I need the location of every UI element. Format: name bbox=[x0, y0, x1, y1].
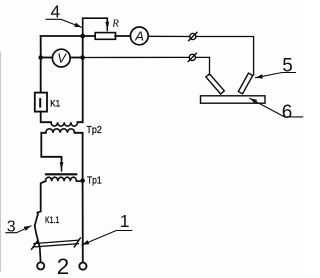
wire: left vertical from top corner down to relay K1 bbox=[40, 36, 42, 93]
wire: top row left segment bbox=[41, 35, 95, 37]
wire: right bus down to bottom terminal bbox=[82, 181, 84, 263]
wire: Tp2 secondary right lead down to Tp1 junction bbox=[75, 133, 83, 181]
svg-text:2: 2 bbox=[57, 254, 70, 278]
leader line for label 3 bbox=[6, 226, 31, 233]
svg-text:4: 4 bbox=[51, 2, 61, 22]
Tp1 tap bar bbox=[46, 173, 76, 175]
switch K1.1 blade bbox=[35, 212, 39, 226]
leader line for label 4 bbox=[46, 19, 82, 27]
svg-text:6: 6 bbox=[282, 102, 293, 123]
svg-text:A: A bbox=[134, 29, 144, 44]
svg-text:5: 5 bbox=[282, 55, 293, 76]
connector (top) circle-slash bbox=[189, 32, 197, 40]
jumper bar bottom line bbox=[34, 244, 79, 247]
leader line for label 6 bbox=[250, 98, 303, 117]
wire: ammeter to top connector bbox=[148, 35, 189, 37]
jumper left slash bbox=[32, 241, 38, 249]
svg-text:R: R bbox=[111, 18, 119, 30]
switch K1.1 fixed tick bbox=[37, 211, 41, 214]
wire: bottom connector to left electrode bbox=[196, 57, 210, 74]
wire: switch to bottom left terminal bbox=[35, 226, 41, 263]
wire: top connector to right corner and down to electrode bbox=[196, 37, 254, 76]
rheostat arrow stem bbox=[106, 20, 108, 31]
connector (bottom) circle-slash bbox=[188, 53, 196, 61]
wire: K1 to Tp2 primary bbox=[41, 112, 51, 123]
jumper bar top line bbox=[34, 240, 79, 243]
svg-text:1: 1 bbox=[120, 211, 130, 231]
wire: Tp1 right lead bbox=[77, 180, 83, 182]
node: row2 right junction bbox=[80, 55, 85, 60]
svg-text:V: V bbox=[57, 51, 67, 66]
relay coil K1 bbox=[35, 93, 47, 112]
jumper right slash bbox=[74, 238, 80, 247]
wire: resistor to ammeter bbox=[115, 35, 130, 37]
node: junction top row / rheostat bypass bbox=[80, 34, 85, 39]
wire: row2 left to voltmeter bbox=[41, 57, 53, 59]
terminal circle left bbox=[37, 262, 44, 269]
svg-text:3: 3 bbox=[7, 219, 16, 236]
node: Tp1 right junction bbox=[80, 178, 85, 183]
resistor R body bbox=[95, 33, 115, 40]
svg-text:K1.1: K1.1 bbox=[45, 215, 59, 226]
wire: row2 junction to bottom connector bbox=[83, 56, 190, 58]
wire: Tp2 secondary left lead to moving tap bbox=[41, 133, 61, 160]
scan artifact left edge bbox=[0, 52, 2, 271]
voltmeter circle bbox=[52, 49, 70, 67]
workpiece 6 plate bbox=[201, 96, 266, 103]
node: row2 left junction bbox=[38, 55, 43, 60]
terminal circle right bbox=[79, 263, 86, 270]
electrode 5 right bbox=[238, 73, 252, 94]
electrode 5 left bbox=[206, 74, 224, 94]
vertical bus: row1 junction down through row2 to Tp2 primary bbox=[78, 36, 83, 122]
transformer Tp2 primary winding bbox=[51, 122, 77, 126]
leader line for label 5 bbox=[256, 73, 296, 78]
svg-text:Tp1: Tp1 bbox=[87, 176, 102, 187]
rheostat bypass wire with arrow bbox=[83, 18, 108, 36]
wire: voltmeter to right junction bbox=[70, 57, 82, 59]
transformer Tp2 secondary winding bbox=[46, 129, 75, 133]
svg-text:K1: K1 bbox=[50, 98, 60, 109]
K1 inner bar bbox=[39, 99, 41, 107]
ammeter A circle bbox=[130, 27, 148, 45]
svg-text:Tp2: Tp2 bbox=[86, 125, 102, 136]
wire: Tp1 left lead down to switch bbox=[41, 181, 46, 211]
leader line for label 1 bbox=[82, 231, 132, 245]
moving tap arrow bbox=[61, 158, 63, 171]
transformer Tp1 winding bbox=[46, 177, 77, 181]
